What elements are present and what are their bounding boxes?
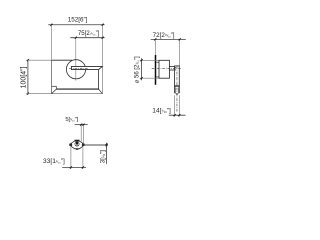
plate outer bottom edge: [51, 93, 102, 95]
centerline extension from 75-dim to circle (x=75.8): [75, 38, 77, 80]
extension line from lever edge to 72-dim: [179, 40, 181, 65]
svg-text:72[2¹³⁄₁₆”]: 72[2¹³⁄₁₆”]: [153, 32, 175, 39]
dimension 33 line: [62, 166, 86, 168]
top bump (lever cross-section): [75, 140, 80, 142]
extension line bottom (y=93.6): [26, 93, 51, 95]
lever bar (side, hanging down): [175, 66, 180, 93]
stem-bar junction dot bottom: [175, 69, 176, 70]
svg-text:33[1⁵⁄₁₆”]: 33[1⁵⁄₁₆”]: [43, 158, 65, 165]
collar at wall: [156, 62, 159, 77]
lever centerline (dash-dot vertical): [176, 67, 178, 113]
dimension 152 line: [48, 24, 104, 26]
stem-bar junction dot top: [175, 67, 176, 68]
left ear (pin): [69, 143, 72, 146]
bottom bump: [76, 149, 79, 150]
dimension 72 line: [151, 38, 186, 40]
small dot right: [77, 145, 78, 146]
svg-text:75[2¹⁵⁄₁₆”]: 75[2¹⁵⁄₁₆”]: [78, 30, 100, 37]
plate outer right edge: [101, 66, 103, 94]
svg-text:14[⁹⁄₁₆”]: 14[⁹⁄₁₆”]: [152, 107, 171, 114]
lever grip inner sleeve with pointed tip: [176, 87, 179, 95]
stem: [169, 67, 174, 70]
dimension 75 line: [70, 37, 104, 39]
inner circle: [75, 142, 79, 146]
plate top edge (y=60.2 to circle): [51, 59, 72, 61]
small dot left: [75, 145, 76, 146]
body centerline (dash-dot horizontal): [152, 67, 181, 69]
bottom-right corner bevel diagonal: [99, 89, 103, 94]
screw head dark: [76, 142, 79, 145]
extension line from wall to 72-dim: [154, 40, 156, 55]
svg-text:152[6”]: 152[6”]: [68, 16, 88, 23]
extension lines from part down to 33-dim: [70, 147, 72, 169]
dimension 14 line: [169, 114, 186, 116]
extension line right (x=102.6 from dim to lever tip): [102, 26, 104, 66]
extension line top (y=60.2) from dim toward plate: [26, 59, 51, 61]
extension line left (x=51.4 from dim to plate corner): [50, 26, 52, 60]
svg-text:⌀ 56 [2³⁄₁₆”]: ⌀ 56 [2³⁄₁₆”]: [134, 56, 140, 83]
escutcheon circle (d56): [66, 60, 85, 79]
bottom-left corner notch: [52, 86, 57, 93]
bottom view part: octagon body: [71, 141, 82, 149]
svg-text:100[4”]: 100[4”]: [20, 67, 27, 89]
extension lines lever bottom to 14-dim: [174, 95, 176, 117]
lever bar centerline (dash-dot): [69, 67, 87, 69]
dimension 5 line: [75, 124, 88, 126]
svg-text:3[¹⁄₈”]: 3[¹⁄₈”]: [99, 150, 106, 163]
right ear (pin): [82, 143, 85, 146]
dimension d56 line (vertical): [141, 58, 143, 80]
dimension 100 line (vertical at x=27.9): [27, 59, 29, 95]
escutcheon dome (side): [159, 60, 169, 78]
lever bar (front view, pointing right): [71, 66, 102, 69]
dimension 3 line (vertical): [106, 143, 108, 164]
lever crossbar joint: [174, 85, 179, 87]
wall line (thick): [155, 55, 157, 85]
plate left edge: [51, 60, 53, 94]
plate inner right edge: [98, 70, 100, 90]
plate inner bottom edge (thick): [57, 88, 99, 90]
extension lines from part right to 3-dim: [85, 143, 108, 145]
extension lines from 5-dim down to part: [80, 125, 82, 141]
d56 extension lines: [140, 59, 159, 61]
